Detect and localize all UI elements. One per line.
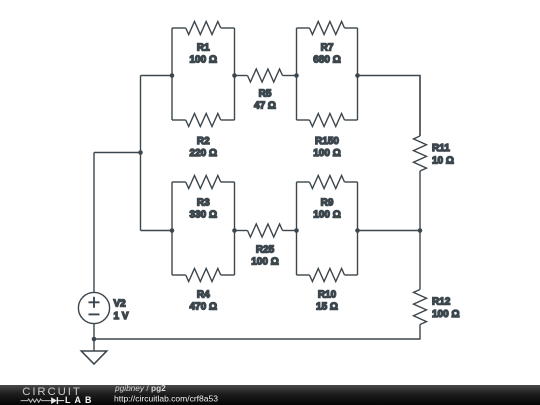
CircuitLab logo resistor squiggle [21,399,51,402]
wire R7/R150 right vertical [357,28,359,120]
svg-text:680 Ω: 680 Ω [313,55,340,66]
resistor R150 [297,114,358,160]
wire R7/R150 left vertical [296,28,298,120]
svg-text:R4: R4 [197,290,210,301]
resistor R12 [414,290,460,325]
wire left rail top segment (node to R1/R2 pair) [141,75,173,77]
resistor R11 [414,76,454,172]
svg-text:1 V: 1 V [114,311,129,322]
svg-text:R7: R7 [321,43,334,54]
resistor R4 [172,269,235,313]
junction bottom-left pair right node [232,228,237,233]
wire bottom pair node to right rail [358,230,421,232]
junction top-right pair right node [355,73,360,78]
junction top-left pair right node [232,73,237,78]
svg-text:100 Ω: 100 Ω [251,257,278,268]
wire V2 branch horizontal [94,152,141,154]
svg-text:R12: R12 [432,297,451,308]
svg-text:R11: R11 [432,143,450,154]
wire left rail bottom segment (to R3/R4 pair) [141,230,173,232]
footer bar [0,385,540,405]
wire R9/R10 left vertical [296,182,298,275]
svg-text:LAB: LAB [65,395,96,405]
wire R3/R4 right vertical [234,182,236,275]
svg-text:R150: R150 [315,136,339,147]
wire V2 top lead vertical [93,153,95,293]
svg-text:470 Ω: 470 Ω [190,302,217,313]
svg-text:220 Ω: 220 Ω [190,148,217,159]
junction bottom-left pair left node [170,228,175,233]
svg-text:47 Ω: 47 Ω [254,101,276,112]
wire top node to right rail [358,76,421,137]
svg-text:pgibney / pg2: pgibney / pg2 [114,383,166,393]
voltage source V2 [78,292,128,323]
svg-text:V2: V2 [114,299,127,310]
svg-text:R9: R9 [321,198,334,209]
resistor R25 [235,224,297,268]
svg-text:R3: R3 [197,198,210,209]
junction bottom-right pair right node [355,228,360,233]
junction right rail / bottom pair [418,228,423,233]
svg-text:100 Ω: 100 Ω [190,55,217,66]
wire R1/R2 right vertical [234,28,236,120]
svg-text:330 Ω: 330 Ω [190,210,217,221]
resistor R3 [172,176,235,221]
resistor R10 [297,269,358,313]
svg-text:100 Ω: 100 Ω [313,148,340,159]
wire R9/R10 right vertical [357,182,359,275]
svg-text:100 Ω: 100 Ω [313,210,340,221]
svg-text:R2: R2 [197,136,210,147]
svg-text:R10: R10 [318,290,337,301]
wire R3/R4 left vertical [171,182,173,275]
resistor R9 [297,176,358,221]
junction V2 / ground / bottom rail [92,337,97,342]
svg-text:15 Ω: 15 Ω [316,302,338,313]
junction left rail / V2 branch [138,150,143,155]
junction bottom-right pair left node [294,228,299,233]
resistor R2 [172,114,235,160]
wire R12 bottom to ground rail [94,325,420,340]
CircuitLab logo diode symbol [51,397,64,404]
wire R1/R2 left vertical [171,28,173,120]
junction top-left pair left node [170,73,175,78]
svg-text:R25: R25 [256,245,275,256]
svg-text:http://circuitlab.com/crf8a53: http://circuitlab.com/crf8a53 [114,393,218,403]
ground [81,339,106,364]
resistor R1 [172,22,235,66]
svg-text:10 Ω: 10 Ω [432,156,454,167]
svg-text:100 Ω: 100 Ω [432,309,459,320]
svg-text:R1: R1 [197,43,210,54]
resistor R7 [297,22,358,66]
wire R11 to R12 vertical [419,171,421,290]
wire left rail vertical [140,76,142,231]
svg-text:R5: R5 [259,89,272,100]
resistor R5 [235,69,297,112]
wire V2 bottom lead [93,324,95,339]
junction top-right pair left node [294,73,299,78]
